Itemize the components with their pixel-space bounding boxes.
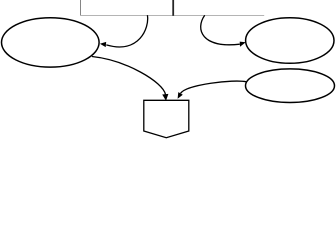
top-right ellipse (246, 18, 334, 64)
arrowhead: into top-right ellipse (240, 42, 246, 47)
arrowhead: into left ellipse (100, 42, 106, 47)
wire: bottom-right ellipse to pentagon (181, 81, 247, 93)
dark vertical divider (172, 0, 174, 16)
bottom-right ellipse (246, 69, 335, 103)
left ellipse (2, 18, 100, 67)
arrowhead: into pentagon top (left) (162, 94, 168, 101)
wire: box to left ellipse (106, 15, 147, 47)
box (cut off at top): left edge (80, 0, 82, 16)
wire: box to top-right ellipse (201, 15, 240, 45)
wire: left ellipse to pentagon (92, 57, 166, 95)
pentagon (144, 100, 189, 137)
arrowhead: into pentagon top (right) (178, 92, 183, 99)
box bottom edge (80, 15, 264, 17)
